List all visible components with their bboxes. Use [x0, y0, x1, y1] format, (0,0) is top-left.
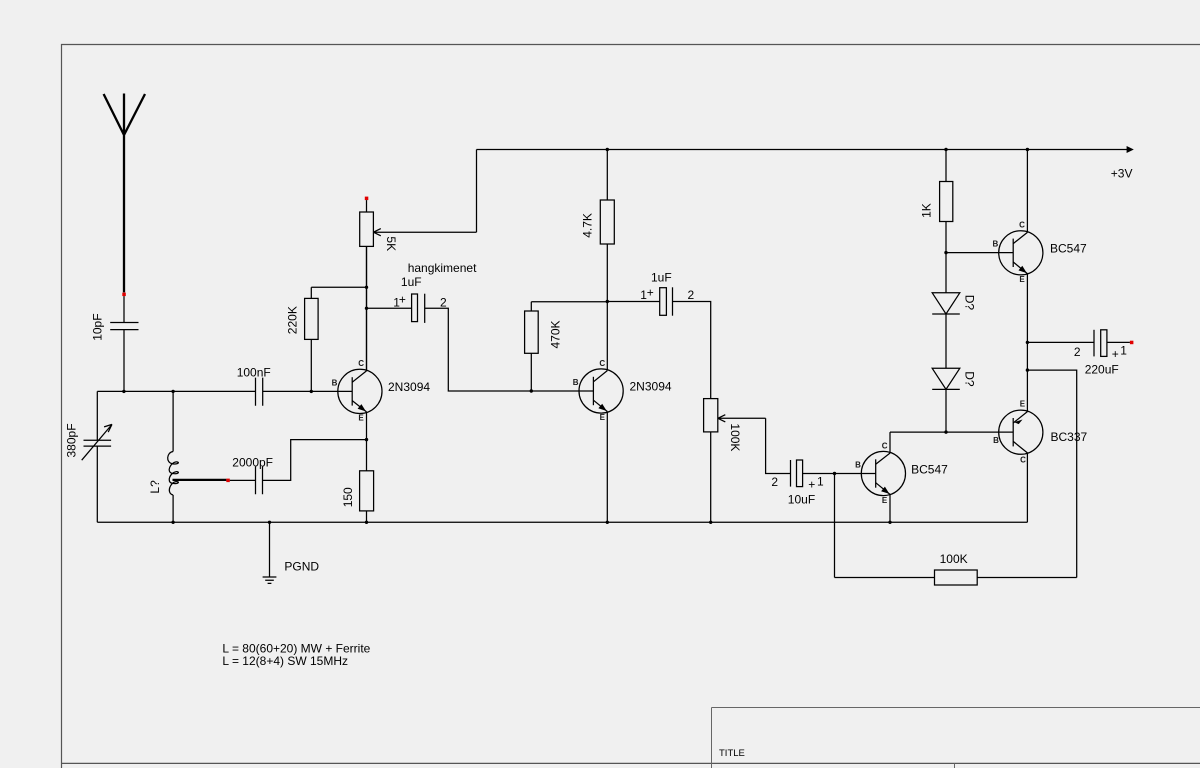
svg-text:10uF: 10uF — [788, 493, 815, 507]
wire 1K to BC547 base — [946, 252, 1013, 254]
svg-text:150: 150 — [341, 487, 355, 507]
transistor Q1 2N3094 — [332, 359, 431, 422]
svg-text:E: E — [1020, 400, 1026, 409]
wire +3V rail — [477, 146, 1134, 181]
svg-text:2: 2 — [1074, 345, 1081, 359]
svg-text:1: 1 — [1120, 344, 1127, 358]
svg-text:L?: L? — [148, 480, 162, 494]
svg-text:C: C — [1020, 455, 1026, 464]
capacitor 10uF — [771, 460, 875, 507]
node 220K/5K — [365, 286, 368, 289]
svg-text:1uF: 1uF — [651, 270, 672, 284]
svg-text:B: B — [993, 240, 999, 249]
svg-text:2: 2 — [688, 288, 695, 302]
svg-text:C: C — [358, 359, 364, 368]
node BC547C/+3V — [1026, 148, 1029, 151]
node 150/ground — [365, 521, 368, 524]
resistor 4.7K — [581, 150, 615, 371]
svg-text:TITLE: TITLE — [719, 748, 745, 759]
svg-text:BC547: BC547 — [911, 462, 948, 476]
diode D? (upper) — [932, 293, 976, 369]
node pot/ground — [709, 521, 712, 524]
capacitor 380pF (variable) — [65, 391, 113, 522]
svg-text:E: E — [1019, 275, 1025, 284]
svg-text:+: + — [647, 285, 654, 299]
svg-text:BC547: BC547 — [1050, 242, 1087, 256]
svg-text:E: E — [882, 496, 888, 505]
svg-text:5K: 5K — [384, 236, 398, 251]
wire antenna to C 10pF — [123, 296, 125, 322]
svg-text:E: E — [358, 414, 364, 423]
wire Q3 base node down to 100K — [835, 474, 935, 578]
svg-text:2000pF: 2000pF — [232, 455, 273, 469]
node 1uF tap — [365, 307, 368, 310]
svg-text:4.7K: 4.7K — [581, 213, 595, 238]
transistor Q3 BC547 — [855, 441, 948, 505]
svg-text:2: 2 — [771, 475, 778, 489]
node 1K/+3V — [944, 148, 947, 151]
svg-text:C: C — [882, 441, 888, 450]
node Q2 collector — [606, 300, 609, 303]
wire wiper to C 10uF — [766, 418, 791, 473]
node feedback tap — [1026, 368, 1029, 371]
wire BC547 emitter to BC337 emitter — [1026, 274, 1028, 412]
svg-text:+: + — [808, 477, 815, 491]
svg-text:E: E — [600, 413, 606, 422]
svg-text:B: B — [993, 436, 999, 445]
wire tank rail — [97, 390, 352, 392]
svg-text:380pF: 380pF — [65, 423, 79, 457]
node 10pF/rail — [122, 390, 125, 393]
capacitor 1uF (hangkimenet) — [367, 261, 594, 391]
svg-text:220uF: 220uF — [1085, 363, 1119, 377]
wire C 10pF to tank rail — [123, 330, 125, 392]
node red 5K top — [365, 197, 369, 201]
svg-text:B: B — [332, 378, 338, 387]
node 470K/Q2 base — [530, 389, 533, 392]
svg-text:D?: D? — [963, 371, 977, 387]
svg-text:470K: 470K — [549, 320, 563, 348]
node 4.7K/+3V — [606, 148, 609, 151]
svg-text:C: C — [1019, 221, 1025, 230]
transistor Q2 2N3094 — [573, 359, 672, 422]
svg-text:B: B — [855, 460, 861, 469]
transistor BC337 — [993, 400, 1087, 465]
svg-text:+3V: +3V — [1111, 167, 1133, 181]
node tap (red) — [226, 479, 230, 483]
wire Q2 emitter to ground — [606, 412, 608, 523]
capacitor 100nF — [237, 366, 271, 406]
wire C 2000pF to Q1 emitter node — [263, 440, 367, 481]
svg-text:100K: 100K — [728, 423, 742, 451]
node 220uF tap — [1026, 341, 1029, 344]
svg-text:+: + — [1112, 347, 1119, 361]
node antenna-cap (red) — [122, 293, 126, 297]
svg-text:hangkimenet: hangkimenet — [408, 261, 477, 275]
resistor 1K — [920, 150, 953, 293]
svg-text:1K: 1K — [920, 203, 934, 218]
node 1K/BC547 base — [944, 251, 947, 254]
wire BC547 collector to +3V — [1026, 150, 1028, 233]
svg-text:B: B — [573, 378, 579, 387]
svg-text:BC337: BC337 — [1051, 430, 1088, 444]
node PGND/ground — [268, 521, 271, 524]
resistor 150 — [341, 471, 374, 523]
node Q3E/ground — [888, 521, 891, 524]
transistor BC547 (top) — [993, 221, 1088, 285]
capacitor 2000pF — [232, 455, 273, 494]
node 2000pF/emitter — [365, 438, 368, 441]
node L/ground — [171, 521, 174, 524]
wire 5K wiper to +3V rail — [476, 150, 478, 233]
resistor 470K — [525, 302, 608, 391]
svg-text:C: C — [599, 359, 605, 368]
note text L values — [222, 641, 370, 667]
node L/rail — [171, 390, 174, 393]
node 220uF out (red) — [1130, 341, 1134, 345]
capacitor 1uF (second) — [607, 270, 710, 398]
svg-text:L = 12(8+4) SW 15MHz: L = 12(8+4) SW 15MHz — [222, 654, 348, 668]
title block — [712, 708, 1200, 768]
svg-text:100nF: 100nF — [237, 366, 271, 380]
svg-text:100K: 100K — [940, 552, 968, 566]
capacitor 10pF — [91, 313, 139, 340]
svg-text:10pF: 10pF — [91, 313, 105, 340]
wire Q3 emitter to ground — [889, 494, 891, 522]
svg-text:220K: 220K — [286, 306, 300, 334]
node 10uF/Q3 base — [833, 472, 836, 475]
antenna — [104, 94, 145, 293]
svg-text:+: + — [399, 292, 406, 306]
wire Q1 emitter — [366, 412, 368, 471]
resistor 220K — [286, 287, 367, 391]
svg-text:1uF: 1uF — [401, 275, 422, 289]
wire Q1 collector — [366, 246, 368, 371]
svg-text:1: 1 — [817, 475, 824, 489]
wire Q3 collector to BC337 base — [890, 432, 1013, 453]
wire BC337 collector to ground rail — [1026, 453, 1028, 522]
wire tap to C 2000pF — [230, 479, 256, 481]
svg-text:2N3094: 2N3094 — [388, 380, 430, 394]
ground PGND — [263, 522, 320, 583]
svg-text:PGND: PGND — [284, 559, 319, 573]
resistor 100K (feedback) — [935, 552, 1077, 585]
diode D? (lower) — [932, 368, 976, 432]
svg-text:2N3094: 2N3094 — [630, 380, 672, 394]
ground rail — [97, 521, 1027, 523]
potentiometer 5K — [360, 200, 477, 371]
node 220K/base wire — [310, 390, 313, 393]
potentiometer 100K — [704, 399, 766, 523]
svg-text:2: 2 — [440, 296, 447, 310]
wire feedback tap to 100K — [1027, 370, 1076, 577]
inductor L? — [148, 391, 178, 522]
svg-text:D?: D? — [963, 295, 977, 311]
node diodes/Q3C wire — [944, 430, 947, 433]
wire inductor tap (thick) — [173, 479, 227, 481]
node Q2E/ground — [606, 521, 609, 524]
capacitor 220uF — [1027, 330, 1130, 377]
